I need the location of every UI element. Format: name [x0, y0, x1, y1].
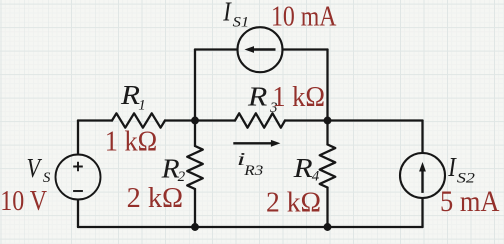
wire: main horizontal top-left segment: [78, 119, 112, 121]
resistor R2: [187, 146, 203, 189]
svg-text:R: R: [292, 153, 313, 183]
wire: IS1 branch down to node B: [326, 50, 328, 121]
wire: node A to R3: [195, 119, 235, 121]
current arrow iR3: [233, 140, 280, 147]
svg-text:S1: S1: [233, 15, 250, 31]
node C (bottom junction R2): [191, 223, 199, 231]
wire: R1 to node A: [165, 119, 195, 121]
resistor R4: [320, 145, 336, 188]
wire: right branch above IS2: [421, 121, 423, 154]
node A (junction R1/R3/R2/IS1): [191, 117, 199, 125]
wire: node A up to IS1 row: [194, 50, 196, 121]
svg-text:10 mA: 10 mA: [271, 2, 337, 33]
svg-text:1 kΩ: 1 kΩ: [105, 127, 158, 158]
wire: right branch below IS2: [421, 198, 423, 227]
wire: node A down to R2: [194, 121, 196, 147]
svg-text:1: 1: [138, 98, 146, 114]
VS plus sign: [73, 162, 83, 172]
wire: IS1 left lead: [195, 48, 238, 50]
svg-text:S2: S2: [457, 171, 476, 187]
svg-text:10 V: 10 V: [0, 186, 47, 217]
node B (junction R3/R4/IS1): [324, 117, 332, 125]
wire: R4 to bottom rail: [326, 188, 328, 228]
voltage source VS circle: [56, 155, 101, 200]
wire: bottom rail: [78, 226, 423, 228]
resistor R3: [235, 113, 285, 127]
svg-text:S: S: [43, 170, 51, 186]
wire: node B down to R4: [326, 121, 328, 145]
svg-text:1 kΩ: 1 kΩ: [272, 82, 325, 113]
current source IS1 circle: [238, 27, 283, 72]
svg-text:5 mA: 5 mA: [440, 185, 500, 218]
wire: R3 to node B: [285, 119, 328, 121]
resistor R1: [112, 113, 165, 127]
svg-text:2 kΩ: 2 kΩ: [127, 183, 184, 214]
svg-text:R3: R3: [243, 163, 263, 179]
wire: R2 to bottom rail: [194, 189, 196, 227]
wire: left branch above VS: [77, 121, 79, 155]
wire: left branch below VS: [77, 200, 79, 228]
current source IS2 circle: [400, 153, 445, 198]
svg-text:R: R: [247, 82, 268, 112]
IS2 arrow (points up): [419, 162, 426, 193]
IS1 arrow (points left): [245, 46, 276, 53]
svg-text:2 kΩ: 2 kΩ: [266, 187, 321, 218]
svg-text:4: 4: [312, 169, 320, 185]
node D (bottom junction R4): [324, 223, 332, 231]
wire: IS1 right lead: [283, 48, 328, 50]
wire: node B to right branch corner: [328, 119, 423, 121]
VS minus sign: [73, 190, 83, 192]
